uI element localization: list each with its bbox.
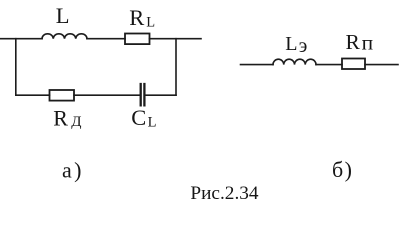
svg-text:Рис.2.34: Рис.2.34 [190, 183, 259, 204]
wire right of CL [145, 94, 176, 96]
svg-text:L: L [146, 15, 155, 31]
inductor Le [273, 59, 316, 64]
svg-text:R: R [346, 30, 361, 54]
wire between L and RL [87, 38, 125, 40]
wire left vertical [15, 39, 17, 95]
svg-text:Д: Д [71, 114, 81, 130]
svg-text:п: п [362, 30, 374, 54]
inductor L [42, 34, 87, 39]
wire bottom-left segment [16, 94, 50, 96]
svg-text:L: L [148, 114, 157, 130]
wire right vertical [175, 39, 177, 95]
svg-text:C: C [131, 105, 146, 130]
wire top-left segment circuit a [0, 38, 42, 40]
resistor RD [50, 90, 75, 101]
svg-text:L: L [56, 3, 70, 28]
svg-text:R: R [53, 105, 68, 130]
wire between Le and Rp [316, 64, 342, 66]
wire between RD and CL [74, 94, 140, 96]
svg-text:б): б) [332, 157, 353, 182]
wire right of RL [150, 38, 202, 40]
resistor Rp [342, 59, 365, 70]
svg-text:э: э [299, 35, 308, 57]
capacitor CL [141, 84, 145, 105]
svg-text:а): а) [62, 157, 84, 182]
svg-text:L: L [285, 33, 297, 55]
resistor RL [125, 34, 150, 45]
wire right stub circuit b [365, 64, 398, 66]
svg-text:R: R [129, 5, 144, 30]
wire left stub circuit b [241, 64, 274, 66]
